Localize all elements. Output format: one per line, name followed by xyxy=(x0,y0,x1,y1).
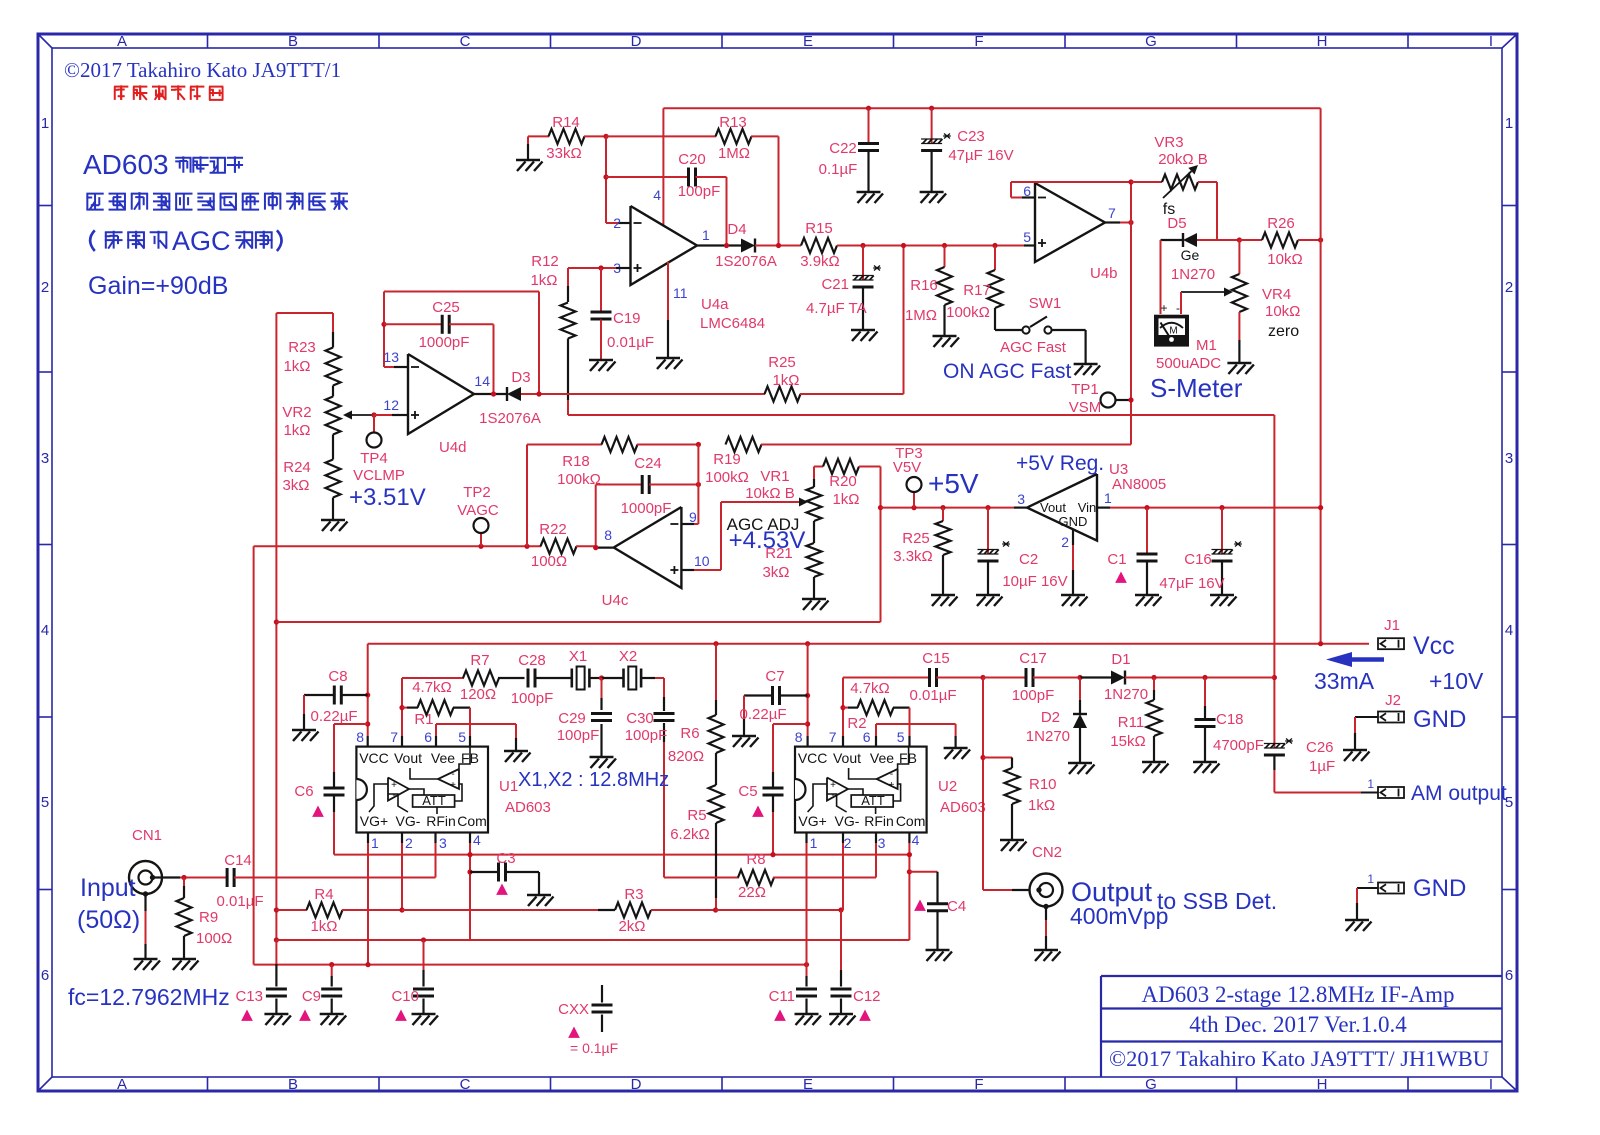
wire C20 right drop xyxy=(726,177,728,246)
svg-text:LMC6484: LMC6484 xyxy=(700,315,765,332)
svg-text:R24: R24 xyxy=(283,459,311,476)
crystal X1 xyxy=(570,669,573,688)
svg-text:4.7kΩ: 4.7kΩ xyxy=(850,680,890,697)
svg-text:+: + xyxy=(1160,301,1167,315)
svg-text:E: E xyxy=(803,33,813,50)
wire U1 pin1 column xyxy=(367,833,369,844)
resistor R12 xyxy=(567,268,569,286)
svg-text:+3.51V: +3.51V xyxy=(349,484,426,511)
svg-text:11: 11 xyxy=(673,285,688,301)
blue title line2 xyxy=(86,193,103,195)
svg-text:Vee: Vee xyxy=(431,750,455,766)
svg-text:AGC Fast: AGC Fast xyxy=(1000,339,1067,356)
svg-text:TP4: TP4 xyxy=(360,450,388,467)
svg-text:8: 8 xyxy=(795,729,803,745)
svg-text:+: + xyxy=(889,780,895,791)
svg-text:R3: R3 xyxy=(624,886,643,903)
svg-text:C15: C15 xyxy=(922,650,950,667)
svg-text:R1: R1 xyxy=(414,711,433,728)
svg-text:1: 1 xyxy=(1367,777,1374,791)
resistor R21 xyxy=(813,521,815,543)
wire pin3 row xyxy=(568,267,616,269)
svg-text:5: 5 xyxy=(41,794,49,811)
svg-text:AM output: AM output xyxy=(1411,782,1507,805)
svg-text:R25: R25 xyxy=(902,530,930,547)
wire U1 pin3 RFin xyxy=(434,833,436,844)
svg-text:C6: C6 xyxy=(294,783,313,800)
svg-text:U4c: U4c xyxy=(602,592,629,609)
svg-text:M1: M1 xyxy=(1196,337,1217,354)
svg-text:5: 5 xyxy=(1023,229,1031,245)
resistor R16 xyxy=(942,243,947,248)
svg-text:C30: C30 xyxy=(626,710,654,727)
capacitor C16 polarized xyxy=(1219,505,1224,510)
svg-text:R16: R16 xyxy=(910,277,938,294)
meter M1 xyxy=(1160,240,1162,314)
ground R14 left xyxy=(527,136,529,144)
svg-text:GND: GND xyxy=(1413,706,1466,733)
resistor R3 xyxy=(615,903,651,918)
svg-text:GND: GND xyxy=(1059,514,1088,529)
svg-text:I: I xyxy=(1489,1076,1493,1093)
svg-text:100pF: 100pF xyxy=(1012,687,1055,704)
svg-text:10kΩ B: 10kΩ B xyxy=(745,485,795,502)
svg-text:3: 3 xyxy=(1017,491,1025,507)
capacitor C1 xyxy=(1144,505,1149,510)
diode D4 xyxy=(754,239,756,253)
svg-text:1N270: 1N270 xyxy=(1171,266,1215,283)
svg-text:VCLMP: VCLMP xyxy=(353,467,405,484)
svg-text:0.22µF: 0.22µF xyxy=(311,708,358,725)
diode D1 xyxy=(1077,675,1082,680)
wire U1 pin6 ground jog xyxy=(435,736,437,747)
svg-text:Vin: Vin xyxy=(1078,500,1097,515)
resistor R20 xyxy=(814,466,823,468)
svg-text:5: 5 xyxy=(897,729,905,745)
svg-text:7: 7 xyxy=(390,729,398,745)
capacitor C14 xyxy=(226,868,229,887)
svg-text:-: - xyxy=(831,790,834,801)
svg-text:C13: C13 xyxy=(235,988,263,1005)
wire +5V rail xyxy=(881,507,1015,509)
svg-text:D3: D3 xyxy=(511,369,530,386)
resistor R6 xyxy=(713,641,718,646)
svg-text:10kΩ: 10kΩ xyxy=(1267,251,1302,268)
wire +5V row extension xyxy=(276,621,880,623)
wire R13 right drop xyxy=(778,136,780,245)
svg-text:C1: C1 xyxy=(1107,551,1126,568)
svg-text:Input: Input xyxy=(80,874,136,902)
U1 internals xyxy=(369,784,388,812)
red kanji notice xyxy=(114,86,128,88)
op-amp U4b xyxy=(1035,183,1105,262)
svg-text:D: D xyxy=(631,1076,642,1093)
capacitor C11 xyxy=(804,962,809,967)
svg-text:ATT: ATT xyxy=(422,793,446,808)
svg-text:1kΩ: 1kΩ xyxy=(530,272,557,289)
wire D3 row to R25 xyxy=(521,393,765,395)
svg-text:RFin: RFin xyxy=(864,813,894,829)
diode D2 xyxy=(1079,678,1081,701)
svg-text:1kΩ: 1kΩ xyxy=(310,918,337,935)
svg-text:4: 4 xyxy=(653,187,661,203)
svg-text:2: 2 xyxy=(1061,534,1069,550)
svg-text:U1: U1 xyxy=(499,778,518,795)
svg-text:22Ω: 22Ω xyxy=(738,884,766,901)
svg-text:10kΩ: 10kΩ xyxy=(1265,303,1300,320)
node D4-R13 xyxy=(776,243,781,248)
wire input line xyxy=(151,876,180,878)
svg-text:R14: R14 xyxy=(552,114,580,131)
svg-text:6: 6 xyxy=(1505,967,1513,984)
resistor R8 xyxy=(664,877,739,879)
capacitor C22 xyxy=(866,106,871,111)
node R14-R13 xyxy=(603,134,608,139)
svg-text:1: 1 xyxy=(371,835,379,851)
wire common rail bottom xyxy=(274,937,279,942)
capacitor C10 xyxy=(421,937,426,942)
wire U2 pin1 column xyxy=(805,833,807,844)
node X1-X2 xyxy=(589,677,601,679)
wire U2 pin6 ground jog xyxy=(875,736,877,747)
capacitor C26 polarized xyxy=(1272,675,1277,680)
blue title line3 xyxy=(90,230,95,251)
svg-text:8: 8 xyxy=(356,729,364,745)
wire C15-C17 node drop xyxy=(982,678,984,891)
capacitor C19 xyxy=(598,265,603,270)
svg-text:C20: C20 xyxy=(678,151,706,168)
wire U2 pin3 RFin xyxy=(875,833,877,844)
wire pin2 column xyxy=(605,136,607,223)
svg-text:= 0.1µF: = 0.1µF xyxy=(570,1040,618,1056)
svg-text:1S2076A: 1S2076A xyxy=(479,410,541,427)
capacitor C29 xyxy=(601,678,603,698)
svg-text:2: 2 xyxy=(613,215,621,231)
svg-text:VR2: VR2 xyxy=(282,404,311,421)
svg-text:D4: D4 xyxy=(727,221,746,238)
title block xyxy=(1101,975,1502,977)
svg-text:820Ω: 820Ω xyxy=(668,748,704,765)
svg-text:R17: R17 xyxy=(963,282,991,299)
resistor R10 xyxy=(980,755,985,760)
svg-text:7: 7 xyxy=(829,729,837,745)
svg-text:G: G xyxy=(1145,33,1157,50)
svg-text:VG-: VG- xyxy=(835,813,860,829)
op-amp U4c xyxy=(614,507,682,588)
resistor R17 xyxy=(992,243,997,248)
svg-text:AN8005: AN8005 xyxy=(1112,476,1166,493)
svg-text:1N270: 1N270 xyxy=(1026,728,1070,745)
svg-text:4.7µF TA: 4.7µF TA xyxy=(806,300,867,317)
svg-text:VG+: VG+ xyxy=(798,813,826,829)
svg-text:R15: R15 xyxy=(805,220,833,237)
svg-text:R13: R13 xyxy=(719,114,747,131)
svg-text:AD603: AD603 xyxy=(505,799,551,816)
svg-text:100kΩ: 100kΩ xyxy=(946,304,990,321)
diode D3 xyxy=(506,387,508,401)
svg-text:C21: C21 xyxy=(821,276,849,293)
capacitor C2 polarized xyxy=(985,505,990,510)
svg-text:C11: C11 xyxy=(769,988,795,1005)
svg-text:C25: C25 xyxy=(432,299,460,316)
resistor R24 xyxy=(332,435,334,460)
svg-text:4: 4 xyxy=(473,832,481,848)
svg-text:+10V: +10V xyxy=(1429,668,1484,694)
svg-text:10: 10 xyxy=(694,553,710,569)
wire U4a pin4 supply drop xyxy=(662,108,664,225)
svg-text:R5: R5 xyxy=(687,807,706,824)
wire U4d feedback outer loop xyxy=(384,291,539,293)
stage1 AD603 U1 box xyxy=(356,747,488,833)
svg-text:G: G xyxy=(1145,1076,1157,1093)
resistor R19 xyxy=(696,442,701,447)
capacitor C18 xyxy=(1202,675,1207,680)
wire U4c pin8 output xyxy=(596,546,614,548)
svg-text:SW1: SW1 xyxy=(1029,295,1062,312)
svg-text:1: 1 xyxy=(41,115,49,132)
wire D1 out row xyxy=(1154,677,1274,679)
op-amp U4d xyxy=(408,354,474,434)
svg-text:to SSB Det.: to SSB Det. xyxy=(1157,888,1277,914)
svg-text:20kΩ B: 20kΩ B xyxy=(1158,151,1208,168)
svg-text:Vout: Vout xyxy=(833,750,861,766)
svg-text:3kΩ: 3kΩ xyxy=(762,564,789,581)
svg-text:7: 7 xyxy=(1108,205,1116,221)
svg-text:CXX: CXX xyxy=(558,1001,589,1018)
svg-text:100Ω: 100Ω xyxy=(196,930,232,947)
capacitor C23 polarized xyxy=(929,106,934,111)
svg-text:100kΩ: 100kΩ xyxy=(705,469,749,486)
wire U4a output xyxy=(697,244,741,246)
svg-text:R25: R25 xyxy=(768,354,796,371)
resistor R23 xyxy=(276,312,333,314)
wire X2 out xyxy=(641,677,655,679)
wire +10V top rail xyxy=(663,107,1320,109)
svg-text:I: I xyxy=(1489,33,1493,50)
svg-text:Com: Com xyxy=(896,813,926,829)
svg-text:3: 3 xyxy=(439,835,447,851)
svg-text:4.7kΩ: 4.7kΩ xyxy=(412,679,452,696)
svg-text:©2017 Takahiro Kato JA9TTT/ J: ©2017 Takahiro Kato JA9TTT/ JH1WBU xyxy=(1109,1046,1489,1071)
svg-text:1kΩ: 1kΩ xyxy=(283,358,310,375)
svg-text:GND: GND xyxy=(1413,875,1466,902)
regulator U3 xyxy=(1027,474,1097,541)
svg-text:C19: C19 xyxy=(613,310,641,327)
resistor R7 xyxy=(402,677,464,679)
wire U2 pin8 column xyxy=(805,641,810,646)
svg-text:TP1: TP1 xyxy=(1071,381,1099,398)
svg-text:1kΩ: 1kΩ xyxy=(1028,797,1055,814)
capacitor C21 polarized xyxy=(860,243,865,248)
svg-text:AD603: AD603 xyxy=(83,149,169,180)
svg-text:AD603 2-stage 12.8MHz IF-Amp: AD603 2-stage 12.8MHz IF-Amp xyxy=(1141,982,1454,1007)
capacitor CXX legend xyxy=(601,985,603,1003)
connector GND2 xyxy=(1378,883,1404,894)
svg-text:1kΩ: 1kΩ xyxy=(772,372,799,389)
svg-text:C8: C8 xyxy=(328,668,347,685)
svg-text:(50Ω): (50Ω) xyxy=(77,906,140,934)
svg-text:VR4: VR4 xyxy=(1262,286,1291,303)
svg-text:R12: R12 xyxy=(531,253,559,270)
svg-text:500uADC: 500uADC xyxy=(1156,355,1221,372)
svg-text:100pF: 100pF xyxy=(625,727,668,744)
op-amp U4a xyxy=(631,206,698,285)
svg-text:100Ω: 100Ω xyxy=(531,553,567,570)
svg-text:1000pF: 1000pF xyxy=(419,334,470,351)
svg-text:C5: C5 xyxy=(738,783,757,800)
stage2 AD603 U2 box xyxy=(795,747,927,833)
svg-text:1: 1 xyxy=(1505,115,1513,132)
svg-text:-: - xyxy=(1176,301,1180,315)
svg-text:C24: C24 xyxy=(634,455,662,472)
svg-text:R18: R18 xyxy=(562,453,590,470)
svg-text:VG+: VG+ xyxy=(360,813,388,829)
svg-text:CN2: CN2 xyxy=(1032,844,1062,861)
svg-text:Vout: Vout xyxy=(394,750,422,766)
capacitor C30 xyxy=(654,712,675,715)
svg-text:1: 1 xyxy=(702,227,710,243)
svg-text:2: 2 xyxy=(405,835,413,851)
svg-text:3: 3 xyxy=(1505,450,1513,467)
svg-text:ON AGC Fast: ON AGC Fast xyxy=(943,360,1072,383)
wire U4c pin9 xyxy=(681,523,694,525)
svg-text:F: F xyxy=(974,33,983,50)
wire AGC line xyxy=(254,545,541,547)
svg-text:6.2kΩ: 6.2kΩ xyxy=(670,826,710,843)
svg-text:13: 13 xyxy=(383,349,399,365)
svg-text:1: 1 xyxy=(810,835,818,851)
capacitor C8 xyxy=(365,692,370,697)
svg-text:R22: R22 xyxy=(539,521,567,538)
wire U1 pin4 column xyxy=(469,833,471,844)
svg-text:400mVpp: 400mVpp xyxy=(1070,903,1168,929)
wire U4c pin10 to VR1 wiper xyxy=(681,569,694,571)
svg-text:0.01µF: 0.01µF xyxy=(217,893,264,910)
svg-text:C10: C10 xyxy=(391,988,419,1005)
svg-text:Gain=+90dB: Gain=+90dB xyxy=(88,272,228,300)
svg-text:C16: C16 xyxy=(1184,551,1212,568)
input connector CN1 xyxy=(129,861,162,894)
connector J2 xyxy=(1378,712,1404,723)
svg-text:F: F xyxy=(974,1076,983,1093)
svg-text:47µF 16V: 47µF 16V xyxy=(948,147,1013,164)
svg-text:-: - xyxy=(392,790,395,801)
svg-text:VR1: VR1 xyxy=(760,468,789,485)
svg-text:R10: R10 xyxy=(1029,776,1057,793)
svg-text:RFin: RFin xyxy=(426,813,456,829)
wire U1 pin2 column xyxy=(401,833,403,844)
node C20 left xyxy=(603,174,608,179)
resistor R4 xyxy=(274,907,279,912)
resistor R9 xyxy=(181,875,186,880)
svg-text:Vcc: Vcc xyxy=(1413,632,1455,660)
svg-text:C4: C4 xyxy=(947,898,966,915)
svg-text:H: H xyxy=(1317,33,1328,50)
svg-text:10µF 16V: 10µF 16V xyxy=(1002,573,1067,590)
svg-text:R11: R11 xyxy=(1118,714,1144,731)
svg-text:C22: C22 xyxy=(829,140,857,157)
wire VG- row xyxy=(402,909,598,911)
svg-text:VG-: VG- xyxy=(396,813,421,829)
svg-text:H: H xyxy=(1317,1076,1328,1093)
svg-text:C2: C2 xyxy=(1019,551,1038,568)
test point TP4 xyxy=(371,412,376,417)
test point TP3 xyxy=(911,505,916,510)
svg-text:100kΩ: 100kΩ xyxy=(557,471,601,488)
svg-text:R9: R9 xyxy=(199,909,218,926)
svg-text:X1: X1 xyxy=(569,648,587,665)
svg-text:4th Dec. 2017 Ver.1.0.4: 4th Dec. 2017 Ver.1.0.4 xyxy=(1189,1012,1407,1037)
wire right Vcc vertical xyxy=(1320,108,1322,644)
svg-text:33kΩ: 33kΩ xyxy=(546,145,581,162)
resistor R15 xyxy=(801,238,837,253)
svg-text:R19: R19 xyxy=(713,451,741,468)
svg-text:100pF: 100pF xyxy=(511,690,554,707)
svg-text:120Ω: 120Ω xyxy=(460,686,496,703)
wire detector out line xyxy=(568,414,1274,416)
svg-text:9: 9 xyxy=(689,509,697,525)
svg-text:2: 2 xyxy=(41,279,49,296)
svg-text:fc=12.7962MHz: fc=12.7962MHz xyxy=(68,984,230,1010)
wire U4d output xyxy=(474,393,507,395)
svg-text:R7: R7 xyxy=(470,652,489,669)
svg-text:X1,X2 : 12.8MHz: X1,X2 : 12.8MHz xyxy=(518,769,669,791)
svg-text:3.3kΩ: 3.3kΩ xyxy=(893,548,933,565)
capacitor C9 xyxy=(329,962,334,967)
svg-text:AD603: AD603 xyxy=(940,799,986,816)
svg-text:VAGC: VAGC xyxy=(457,502,499,519)
svg-text:33mA: 33mA xyxy=(1314,668,1375,694)
svg-text:U4a: U4a xyxy=(701,296,729,313)
wire U1 pin8 column xyxy=(367,644,369,736)
svg-text:U4b: U4b xyxy=(1090,265,1118,282)
svg-text:1N270: 1N270 xyxy=(1104,686,1148,703)
capacitor C28 xyxy=(527,669,530,688)
wire U3 Vin row xyxy=(1097,507,1110,509)
svg-text:3kΩ: 3kΩ xyxy=(282,477,309,494)
diode D5 xyxy=(1161,239,1184,241)
svg-text:C14: C14 xyxy=(224,852,252,869)
wire Vcc rail lower xyxy=(368,643,1369,645)
svg-text:Vee: Vee xyxy=(870,750,894,766)
svg-text:R2: R2 xyxy=(847,715,866,732)
svg-text:R8: R8 xyxy=(746,851,765,868)
connector AM output xyxy=(1378,787,1404,798)
resistor R13 xyxy=(606,135,716,137)
wire R18 left drop xyxy=(526,445,528,547)
svg-text:3.9kΩ: 3.9kΩ xyxy=(800,253,840,270)
switch SW1 xyxy=(995,329,1022,331)
svg-text:C17: C17 xyxy=(1019,650,1047,667)
svg-text:R4: R4 xyxy=(314,886,333,903)
capacitor C7 xyxy=(805,693,810,698)
svg-text:C9: C9 xyxy=(302,988,321,1005)
svg-text:3: 3 xyxy=(41,450,49,467)
variable resistor VR1 xyxy=(813,467,815,480)
svg-text:+5V: +5V xyxy=(928,468,979,499)
svg-text:U2: U2 xyxy=(938,778,957,795)
svg-text:ATT: ATT xyxy=(861,793,885,808)
svg-text:1kΩ: 1kΩ xyxy=(832,491,859,508)
wire U4b pin5 stub xyxy=(1024,244,1035,246)
svg-text:Ge: Ge xyxy=(1181,247,1200,263)
svg-text:-: - xyxy=(451,769,454,780)
svg-text:zero: zero xyxy=(1268,323,1299,340)
wire common row xyxy=(334,854,909,856)
resistor R25a xyxy=(765,387,801,402)
wire VAGC drop xyxy=(253,546,255,964)
svg-text:0.01µF: 0.01µF xyxy=(910,687,957,704)
